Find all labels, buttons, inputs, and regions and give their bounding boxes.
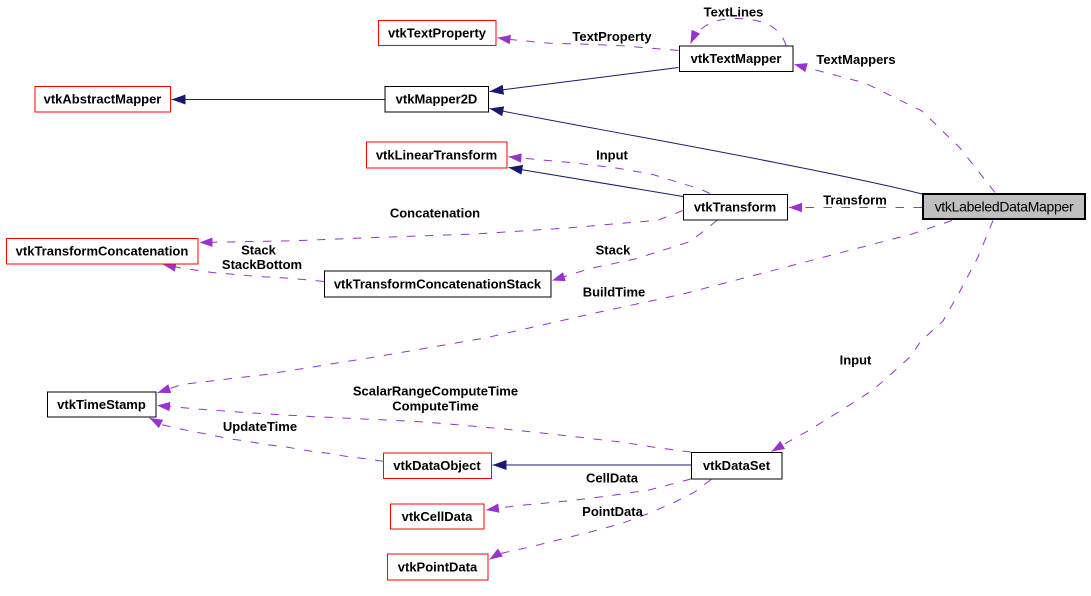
svg-text:Input: Input [596, 148, 628, 163]
usage edge Stack StackBottom [163, 265, 324, 282]
svg-text:Stack: Stack [596, 243, 631, 258]
node vtkPointData [388, 554, 489, 580]
usage edge TextLines self loop [691, 19, 787, 46]
node vtkTextMapper [680, 46, 794, 72]
inheritance edge vtkTransform to vtkLinearTransform [509, 168, 684, 197]
node vtkTransformConcatenation [7, 239, 199, 265]
svg-text:PointData: PointData [582, 504, 643, 519]
usage edge Transform [789, 207, 922, 209]
inheritance edge vtkDataSet to vtkDataObject [493, 464, 692, 466]
node vtkDataSet [692, 453, 783, 480]
svg-text:vtkTransformConcatenationStack: vtkTransformConcatenationStack [334, 277, 542, 292]
svg-text:StackBottom: StackBottom [222, 257, 302, 272]
node vtkTransformConcatenationStack [325, 271, 552, 297]
inheritance edge vtkLabeledDataMapper to vtkMapper2D [490, 109, 923, 195]
node vtkAbstractMapper [35, 87, 171, 113]
usage edge Stack right [552, 221, 717, 281]
svg-text:vtkDataObject: vtkDataObject [393, 458, 481, 473]
svg-text:TextLines: TextLines [704, 5, 764, 20]
svg-text:Stack: Stack [241, 243, 276, 258]
usage edge Input top [509, 157, 711, 194]
usage edge BuildTime [158, 221, 953, 393]
svg-text:CellData: CellData [586, 471, 639, 486]
usage edge Input bottom [772, 221, 994, 452]
svg-text:Transform: Transform [823, 193, 887, 208]
node vtkCellData [391, 504, 485, 529]
svg-text:BuildTime: BuildTime [583, 285, 646, 300]
svg-text:vtkCellData: vtkCellData [402, 509, 474, 524]
svg-text:TextProperty: TextProperty [572, 29, 652, 44]
usage edge Concatenation [200, 211, 684, 243]
svg-text:vtkTextProperty: vtkTextProperty [388, 26, 487, 41]
svg-text:vtkLabeledDataMapper: vtkLabeledDataMapper [935, 199, 1074, 215]
svg-text:UpdateTime: UpdateTime [223, 419, 297, 434]
svg-text:vtkTimeStamp: vtkTimeStamp [57, 397, 146, 412]
node vtkLinearTransform [367, 142, 508, 168]
node vtkMapper2D [385, 87, 489, 113]
svg-text:Concatenation: Concatenation [390, 206, 480, 221]
svg-text:TextMappers: TextMappers [816, 52, 895, 67]
svg-text:vtkTransformConcatenation: vtkTransformConcatenation [16, 244, 189, 259]
node vtkDataObject [384, 453, 492, 479]
usage edge PointData [490, 480, 712, 560]
usage edge CellData [486, 479, 691, 510]
node vtkTransform [684, 195, 788, 221]
node vtkLabeledDataMapper main [923, 194, 1085, 219]
usage edge TextMappers [794, 64, 995, 192]
svg-text:ComputeTime: ComputeTime [392, 399, 478, 414]
node vtkTimeStamp [48, 392, 157, 417]
inheritance edge vtkTextMapper to vtkMapper2D [490, 68, 679, 92]
svg-text:vtkTransform: vtkTransform [694, 200, 776, 215]
inheritance edge vtkMapper2D to vtkAbstractMapper [172, 99, 385, 101]
svg-text:vtkTextMapper: vtkTextMapper [691, 51, 782, 66]
svg-text:vtkDataSet: vtkDataSet [703, 458, 771, 473]
svg-text:vtkLinearTransform: vtkLinearTransform [376, 148, 497, 163]
svg-text:vtkPointData: vtkPointData [398, 560, 478, 575]
svg-text:ScalarRangeComputeTime: ScalarRangeComputeTime [353, 384, 518, 399]
usage edge UpdateTime [150, 418, 384, 461]
svg-text:vtkAbstractMapper: vtkAbstractMapper [44, 92, 162, 107]
usage edge ScalarRangeComputeTime ComputeTime [157, 406, 691, 453]
node vtkTextProperty [379, 21, 497, 46]
svg-text:vtkMapper2D: vtkMapper2D [396, 92, 478, 107]
svg-text:Input: Input [840, 353, 872, 368]
usage edge TextProperty [498, 38, 679, 51]
